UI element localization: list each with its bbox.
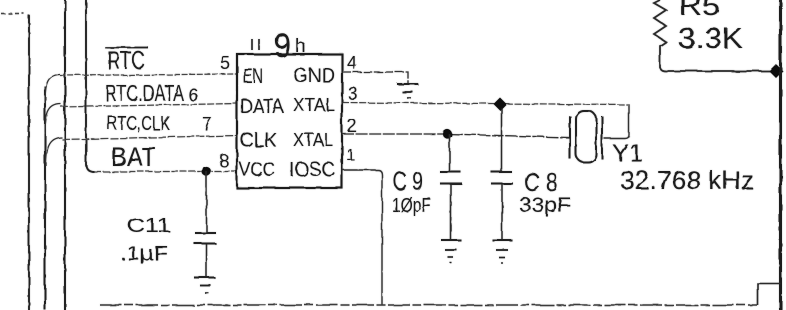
- label R5 value 3.3K: [678, 23, 744, 55]
- pin number 4: [347, 53, 357, 73]
- wire: RTC.CLK net horizontal: [62, 136, 237, 140]
- label R5: [679, 0, 720, 21]
- wire: left bus line 3 curving into BAT: [86, 0, 94, 172]
- pin number 6: [188, 85, 198, 105]
- net label RTC.DATA: [105, 80, 184, 106]
- pin number 8: [219, 151, 229, 171]
- label Y1 value 32.768 kHz: [620, 165, 754, 195]
- label C8 value 33pF: [519, 194, 571, 217]
- node: XTAL2 / C9 junction: [443, 129, 452, 138]
- ground (C9): [441, 240, 461, 263]
- pin number 1: [346, 147, 355, 164]
- ground (C8): [492, 240, 512, 263]
- wire: pin 3 corner down to crystal right plate: [604, 104, 629, 139]
- wire: pin 3 XTAL net horizontal: [342, 103, 629, 105]
- wire: bottom border dashed: [100, 304, 757, 306]
- label Y1: [612, 140, 643, 167]
- node: BAT / C11 junction: [202, 167, 211, 176]
- label C11: [127, 216, 171, 237]
- net label RTC (with overline): [105, 47, 148, 75]
- wire: right border: [779, 0, 782, 310]
- capacitor C8: [491, 108, 513, 239]
- wire: bottom-right step: [758, 284, 781, 306]
- wire: RTC net horizontal: [60, 74, 237, 76]
- ground (C11): [194, 278, 215, 294]
- label C9: [393, 166, 423, 196]
- capacitor C11: [194, 172, 216, 278]
- ground (pin 4): [397, 84, 418, 98]
- pin number 7: [202, 114, 212, 134]
- pin label XTAL (pin 3): [293, 95, 335, 115]
- wire: RTC feeder vertical: [44, 86, 46, 310]
- pin label GND: [293, 65, 335, 87]
- pin label CLK: [240, 129, 277, 152]
- pin label EN: [243, 65, 263, 88]
- wire: left bus line 1: [28, 15, 30, 310]
- node: R5 / right border junction: [769, 64, 783, 78]
- wire: pin 4 GND net: [342, 72, 408, 84]
- wire: RTC.CLK curve: [46, 138, 62, 167]
- wire: RTC curve: [45, 75, 60, 105]
- capacitor C9: [440, 134, 462, 239]
- label C8: [524, 167, 558, 197]
- pin label VCC: [239, 159, 275, 181]
- wire: pin 1 OSC net: [342, 170, 382, 305]
- wire: RTC.DATA curve: [45, 104, 61, 134]
- label U9b above IC: [252, 27, 306, 65]
- wire: left bus line 2: [64, 0, 66, 310]
- pin number 2: [347, 116, 357, 136]
- pin label IOSC: [289, 159, 335, 181]
- label C11 value .1uF: [120, 243, 168, 265]
- wire: RTC.DATA net horizontal: [61, 104, 237, 108]
- IC U9 box: [237, 54, 342, 188]
- pin number 3: [348, 84, 358, 104]
- crystal Y1: [570, 111, 602, 162]
- wire: pin 2 XTAL net horizontal: [342, 134, 569, 138]
- resistor R5: [654, 0, 775, 71]
- node: XTAL3 / C8 junction: [494, 98, 507, 111]
- label C9 value 10pF: [392, 195, 431, 217]
- pin label XTAL (pin 2): [293, 130, 333, 150]
- pin label DATA: [240, 96, 285, 118]
- net label BAT: [111, 142, 156, 172]
- wire: BAT net horizontal: [94, 171, 237, 173]
- pin number 5: [220, 53, 230, 73]
- wire: top-left dashed stub: [1, 13, 24, 15]
- net label RTC.CLK: [107, 113, 170, 135]
